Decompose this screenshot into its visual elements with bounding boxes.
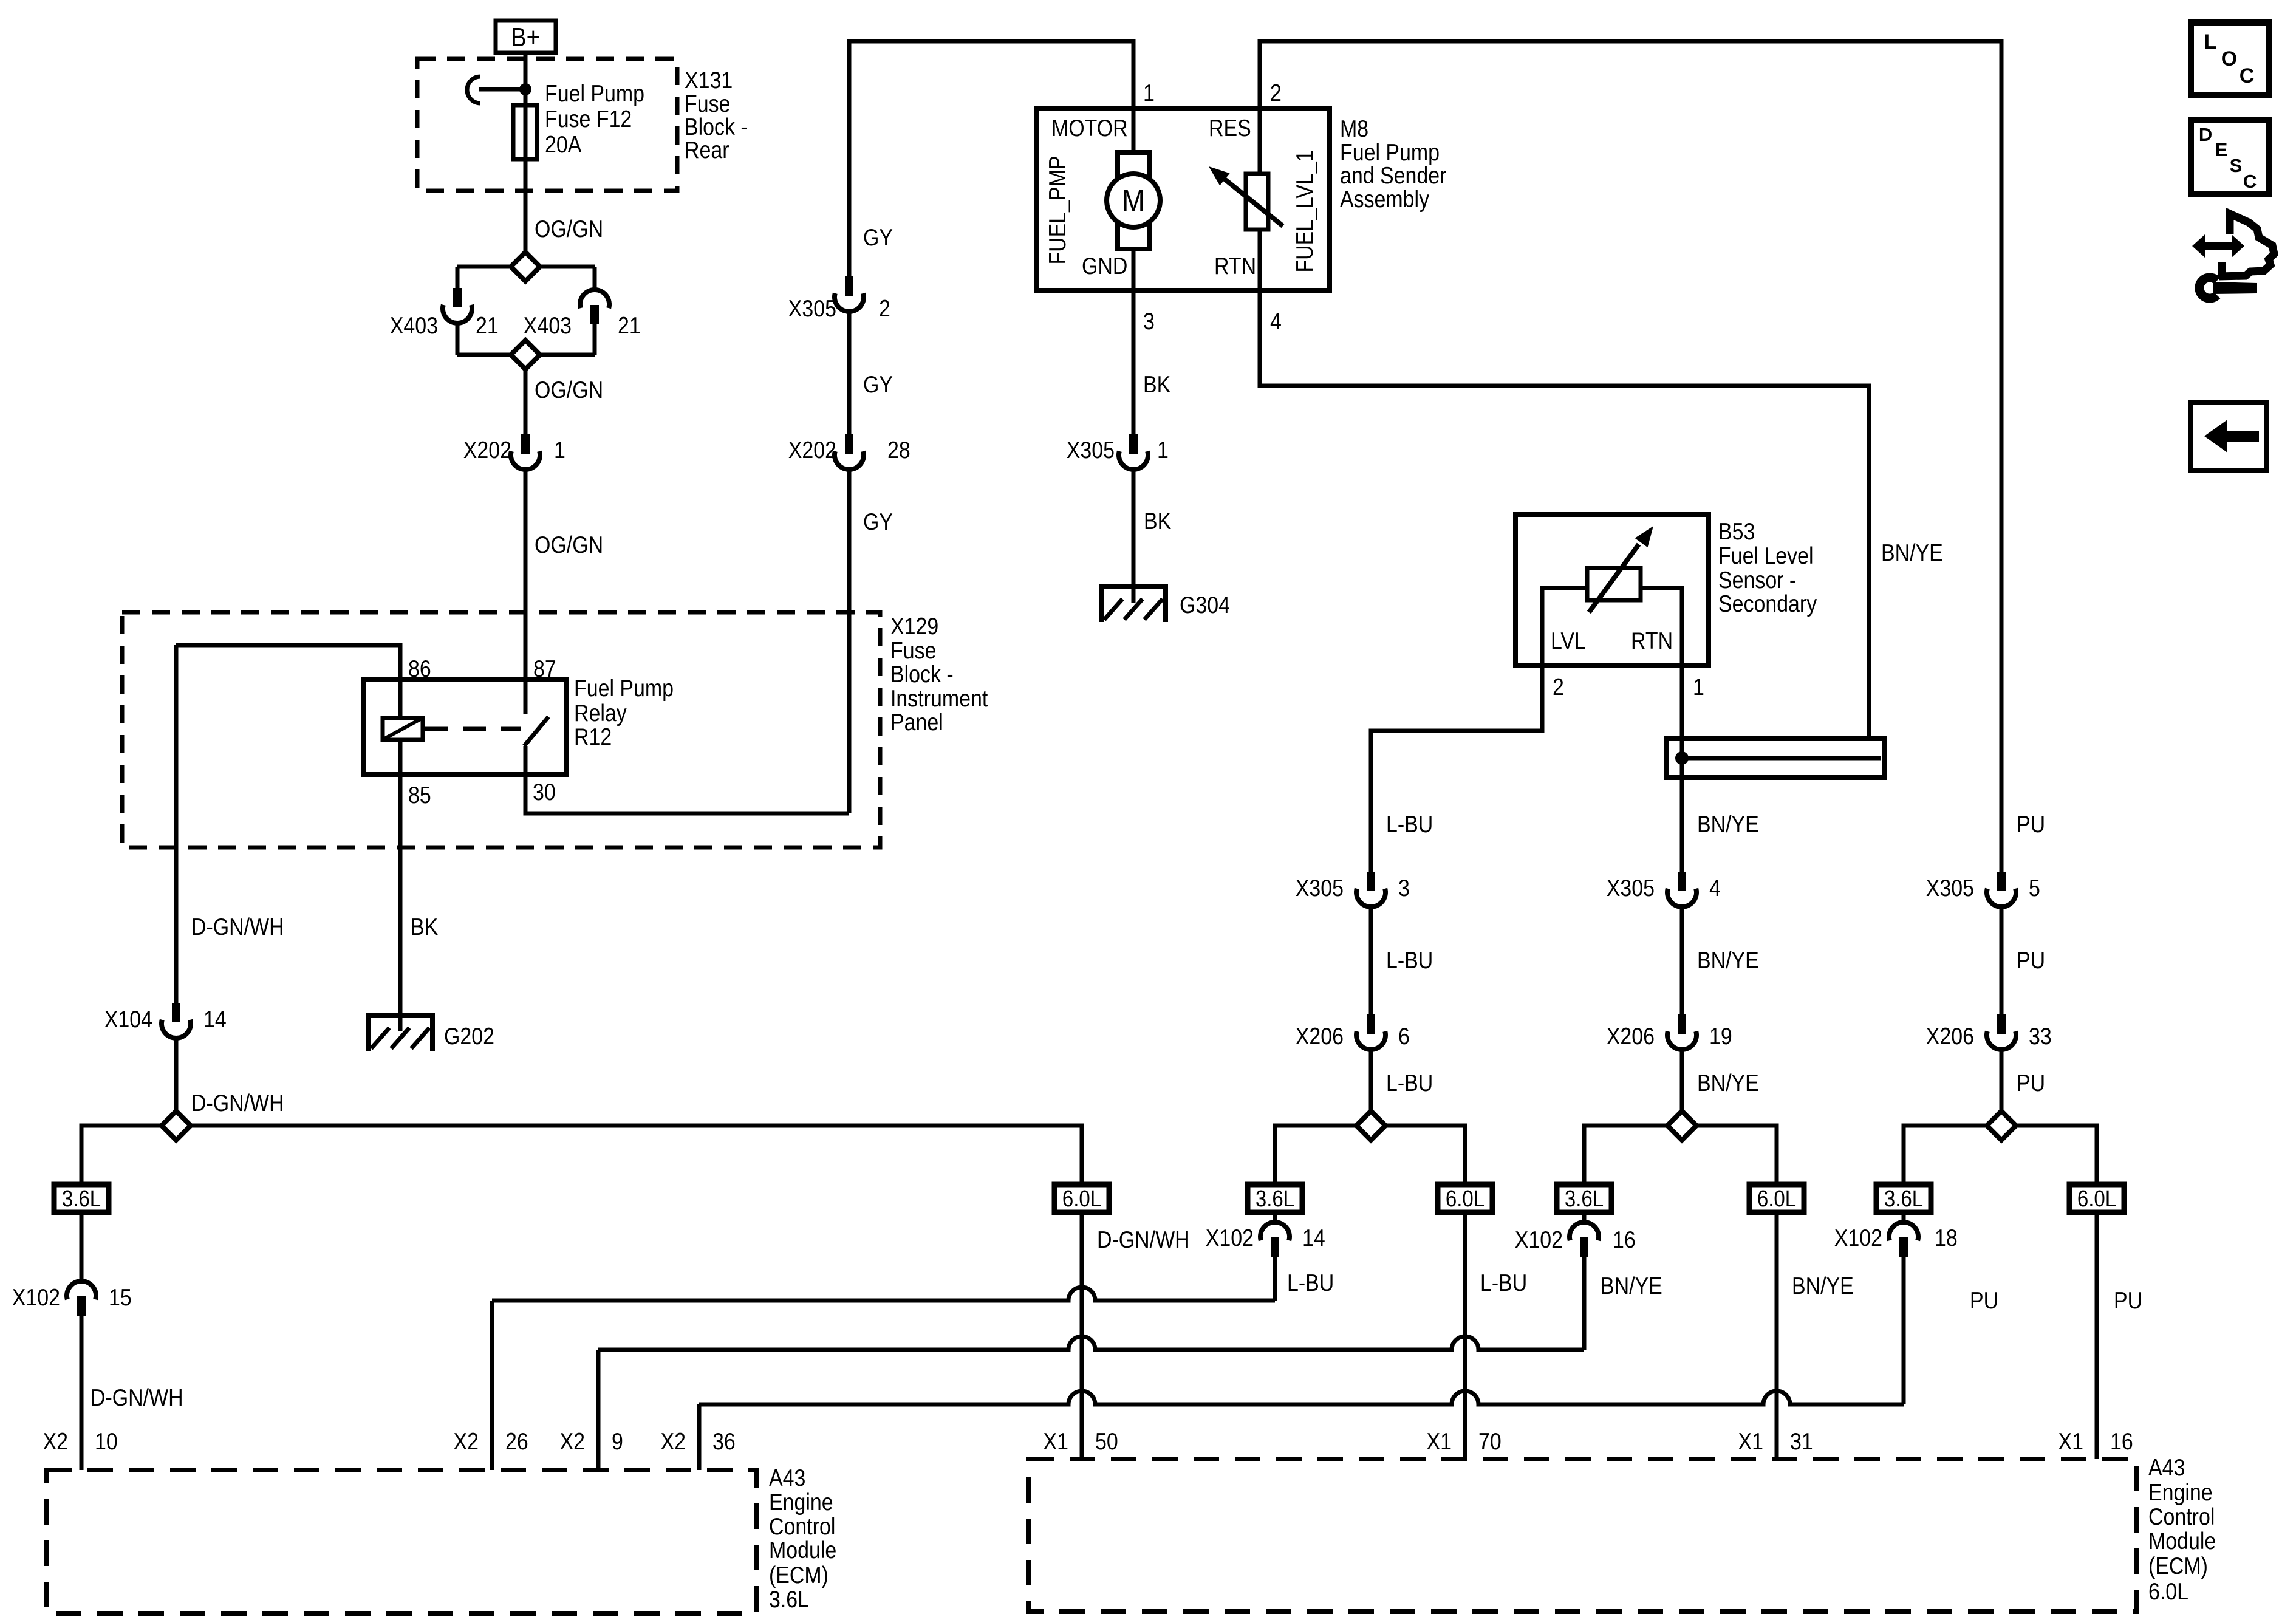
connector X206 terminal 19 — [1678, 1014, 1686, 1034]
junction dot at B+ feed — [519, 83, 531, 95]
svg-text:PU: PU — [2114, 1287, 2142, 1314]
svg-text:(ECM): (ECM) — [769, 1562, 829, 1588]
option box 6.0L at x2412 — [1438, 1185, 1492, 1212]
svg-text:PU: PU — [2017, 1070, 2045, 1096]
svg-text:GY: GY — [863, 371, 893, 398]
svg-text:2: 2 — [1270, 80, 1282, 106]
relay R12 box — [363, 679, 567, 774]
relay switch stub 30 — [524, 746, 528, 774]
svg-text:3: 3 — [1398, 875, 1410, 901]
svg-text:M: M — [1122, 183, 1145, 219]
svg-text:21: 21 — [476, 312, 499, 339]
svg-text:S: S — [2230, 155, 2243, 176]
wire splice fork lower — [457, 353, 595, 357]
wire pin3 to X305-1 — [1132, 290, 1136, 434]
svg-text:PU: PU — [2017, 811, 2045, 838]
svg-text:X206: X206 — [1607, 1023, 1655, 1050]
svg-text:X305: X305 — [1296, 875, 1344, 901]
option box 6.0L at x2925 — [1749, 1185, 1804, 1212]
option box 3.6L at x2099 — [1248, 1185, 1302, 1212]
svg-text:BN/YE: BN/YE — [1601, 1273, 1662, 1299]
ECM 3.6L dashed box — [46, 1470, 756, 1613]
svg-text:26: 26 — [505, 1428, 528, 1455]
fuse block X131 dashed outline — [417, 59, 677, 191]
svg-text:X202: X202 — [463, 437, 511, 463]
relay coil — [383, 718, 423, 740]
icon LOC box — [2191, 22, 2269, 95]
wire splice to X202 — [524, 369, 528, 434]
variable resistor arrow — [1221, 176, 1283, 226]
svg-text:and Sender: and Sender — [1340, 162, 1446, 189]
wire hook to feed — [479, 87, 525, 92]
svg-text:BN/YE: BN/YE — [1697, 811, 1759, 838]
svg-text:31: 31 — [1790, 1428, 1813, 1455]
icon harness foot — [2218, 262, 2226, 276]
connector X102 terminal 14 — [1260, 1222, 1290, 1240]
svg-text:PU: PU — [1970, 1287, 1998, 1314]
wire X305-3 to X206-6 — [1369, 907, 1373, 1014]
svg-text:14: 14 — [203, 1006, 227, 1033]
wire option bus PU — [1904, 1126, 2097, 1185]
connector X305 terminal 2 — [845, 276, 853, 296]
svg-text:1: 1 — [1143, 80, 1155, 106]
svg-text:X1: X1 — [1427, 1428, 1452, 1455]
connector X104 terminal 14 — [172, 1003, 180, 1022]
wire B53 RTN down — [1680, 665, 1684, 872]
connector X206 terminal 33 — [1997, 1014, 2006, 1034]
wire X305-4 to X206-19 — [1680, 907, 1684, 1014]
wire bus B to X2-9 — [598, 1336, 1584, 1350]
svg-text:R12: R12 — [574, 723, 612, 750]
connector X305 terminal 1 — [1129, 434, 1138, 454]
svg-text:3.6L: 3.6L — [1256, 1186, 1294, 1212]
svg-text:6.0L: 6.0L — [2148, 1578, 2188, 1605]
connector X202 terminal 1 — [521, 434, 530, 454]
wire X305-1 to G304 — [1132, 470, 1136, 589]
wire 6.0L BN/YE to ECM2 — [1775, 1212, 1779, 1459]
svg-text:6.0L: 6.0L — [2077, 1186, 2116, 1212]
svg-text:L-BU: L-BU — [1480, 1270, 1527, 1296]
fuse puller hook — [467, 77, 480, 103]
svg-text:OG/GN: OG/GN — [535, 532, 603, 558]
svg-text:Relay: Relay — [574, 700, 627, 726]
icon harness outline — [2219, 214, 2274, 276]
svg-text:A43: A43 — [2148, 1454, 2185, 1481]
svg-text:BN/YE: BN/YE — [1881, 539, 1943, 566]
svg-text:18: 18 — [1935, 1225, 1958, 1251]
wire X102-15 to ECM1 — [80, 1316, 84, 1470]
wire bus A to X2-26 — [492, 1287, 1275, 1301]
svg-text:BK: BK — [411, 914, 438, 940]
svg-text:Instrument: Instrument — [890, 685, 988, 712]
svg-text:L-BU: L-BU — [1287, 1270, 1334, 1296]
svg-text:X102: X102 — [1206, 1225, 1254, 1251]
svg-text:86: 86 — [408, 655, 431, 682]
svg-text:RES: RES — [1209, 115, 1251, 142]
wire option bus BN/YE — [1584, 1126, 1777, 1185]
power terminal B+ — [496, 21, 556, 53]
wire 6.0L D-GN/WH to ECM2 — [1080, 1212, 1084, 1459]
svg-text:3.6L: 3.6L — [1884, 1186, 1923, 1212]
wire sender branch — [1258, 108, 1262, 290]
icon DESC box — [2191, 120, 2269, 194]
wire X102-16 down — [1582, 1257, 1587, 1350]
svg-text:Module: Module — [769, 1537, 836, 1564]
option box 6.0L at x3452 — [2069, 1185, 2124, 1212]
wire X104-14 to splice — [174, 1038, 179, 1126]
svg-text:X129: X129 — [890, 613, 938, 640]
svg-text:3.6L: 3.6L — [1565, 1186, 1604, 1212]
motor M frame — [1118, 152, 1150, 249]
wire X2-9 drop — [596, 1350, 601, 1470]
svg-text:1: 1 — [1693, 674, 1704, 700]
svg-text:X305: X305 — [1067, 437, 1115, 463]
svg-text:MOTOR: MOTOR — [1051, 115, 1128, 142]
svg-text:9: 9 — [612, 1428, 623, 1455]
wire through fuse — [524, 105, 528, 159]
wire relay 30 to GY riser — [525, 774, 849, 813]
svg-text:19: 19 — [1709, 1023, 1732, 1050]
svg-text:O: O — [2221, 47, 2237, 70]
svg-text:X2: X2 — [661, 1428, 686, 1455]
connector X102 terminal 16 — [1570, 1222, 1599, 1240]
svg-text:36: 36 — [712, 1428, 736, 1455]
svg-text:RTN: RTN — [1631, 627, 1673, 654]
icon back-arrow box — [2191, 402, 2266, 470]
svg-text:GND: GND — [1082, 253, 1127, 279]
option box 3.6L at x2608 — [1557, 1185, 1611, 1212]
option box 3.6L at x3134 — [1876, 1185, 1931, 1212]
svg-text:RTN: RTN — [1214, 253, 1256, 279]
svg-text:X102: X102 — [1834, 1225, 1882, 1251]
svg-text:X1: X1 — [1738, 1428, 1763, 1455]
svg-text:14: 14 — [1302, 1225, 1325, 1251]
svg-text:X403: X403 — [524, 312, 572, 339]
svg-text:C: C — [2243, 171, 2257, 192]
svg-text:16: 16 — [1613, 1226, 1636, 1253]
fuse block X129 dashed outline — [122, 612, 880, 847]
wire X206-19 to splice — [1680, 1050, 1684, 1126]
wire B+ to fuse F12 — [524, 53, 528, 105]
svg-text:L-BU: L-BU — [1386, 811, 1433, 838]
wire X102-18 down — [1902, 1257, 1906, 1404]
variable resistor FUEL_LVL_1 — [1246, 174, 1268, 230]
svg-text:OG/GN: OG/GN — [535, 216, 603, 242]
wire X206-33 to splice — [2000, 1050, 2004, 1126]
wire splice fork upper — [457, 265, 595, 269]
svg-text:X305: X305 — [788, 295, 836, 322]
svg-text:C: C — [2240, 64, 2255, 87]
splice pack box — [1666, 739, 1885, 778]
svg-text:4: 4 — [1709, 875, 1721, 901]
svg-text:1: 1 — [554, 437, 565, 463]
svg-text:D-GN/WH: D-GN/WH — [191, 914, 284, 940]
svg-text:6.0L: 6.0L — [1446, 1186, 1485, 1212]
svg-text:D-GN/WH: D-GN/WH — [1097, 1226, 1190, 1253]
svg-text:L: L — [2204, 30, 2217, 53]
wire B53 LVL to X305-3 riser — [1371, 665, 1542, 872]
svg-text:GY: GY — [863, 508, 893, 535]
svg-text:15: 15 — [109, 1284, 132, 1311]
option box 3.6L at x134 — [54, 1185, 109, 1212]
svg-text:Fuse F12: Fuse F12 — [545, 106, 632, 132]
wire option bus D-GN/WH — [81, 1126, 1082, 1185]
wire relay 86 feed — [176, 645, 400, 679]
relay switch stub 87 — [524, 679, 528, 714]
wire top bus left — [849, 41, 1133, 813]
svg-text:X102: X102 — [12, 1284, 60, 1311]
connector X206 terminal 6 — [1367, 1014, 1375, 1034]
svg-text:X2: X2 — [560, 1428, 585, 1455]
wire 3.6L L-BU to X102-14 — [1273, 1211, 1277, 1222]
svg-text:16: 16 — [2110, 1428, 2133, 1455]
svg-text:X305: X305 — [1926, 875, 1974, 901]
wire X403 right down — [593, 324, 597, 355]
splice pack bus — [1682, 756, 1881, 761]
svg-text:3: 3 — [1143, 308, 1155, 335]
svg-text:33: 33 — [2029, 1023, 2052, 1050]
wire 3.6L D-GN/WH to X102-15 — [80, 1212, 84, 1281]
svg-text:X102: X102 — [1515, 1226, 1563, 1253]
svg-text:5: 5 — [2029, 875, 2040, 901]
splice diamond upper — [511, 252, 540, 281]
connector X403 terminal 21 left — [453, 288, 462, 307]
svg-text:20A: 20A — [545, 131, 582, 158]
svg-text:6: 6 — [1398, 1023, 1410, 1050]
wire bus C to X2-36 — [699, 1391, 1904, 1404]
svg-text:X305: X305 — [1607, 875, 1655, 901]
ground G202 — [398, 1016, 403, 1031]
svg-text:2: 2 — [879, 295, 890, 322]
connector X202 terminal 28 — [845, 434, 853, 454]
svg-text:6.0L: 6.0L — [1062, 1186, 1101, 1212]
wire motor branch — [1132, 108, 1136, 290]
svg-text:X202: X202 — [788, 437, 836, 463]
relay switch blade — [524, 717, 548, 746]
svg-text:1: 1 — [1157, 437, 1169, 463]
svg-text:28: 28 — [887, 437, 911, 463]
splice pack dot — [1675, 751, 1689, 765]
connector X102 terminal 18 — [1889, 1222, 1918, 1240]
svg-text:10: 10 — [95, 1428, 118, 1455]
wire X206-6 to splice — [1369, 1050, 1373, 1126]
svg-text:X2: X2 — [454, 1428, 479, 1455]
splice diamond BN/YE — [1667, 1111, 1696, 1140]
svg-text:Engine: Engine — [769, 1489, 833, 1516]
svg-text:L-BU: L-BU — [1386, 947, 1433, 974]
svg-text:X1: X1 — [1044, 1428, 1068, 1455]
svg-text:50: 50 — [1095, 1428, 1118, 1455]
svg-text:B53: B53 — [1718, 518, 1755, 545]
svg-text:E: E — [2215, 139, 2228, 160]
icon double arrow — [2192, 234, 2244, 258]
svg-text:Module: Module — [2148, 1528, 2216, 1554]
wire left branch to X403 — [456, 267, 460, 288]
svg-text:30: 30 — [533, 779, 556, 805]
svg-text:Fuel Pump: Fuel Pump — [545, 80, 644, 107]
svg-text:87: 87 — [533, 655, 556, 682]
svg-text:M8: M8 — [1340, 115, 1368, 142]
M8 assembly box — [1036, 108, 1330, 290]
wire X305-5 to X206-33 — [2000, 907, 2004, 1014]
svg-text:X1: X1 — [2059, 1428, 2083, 1455]
svg-text:FUEL_LVL_1: FUEL_LVL_1 — [1291, 150, 1318, 272]
variable resistor B53 — [1587, 568, 1641, 600]
relay coil-switch dashed link — [425, 727, 521, 731]
svg-text:4: 4 — [1270, 308, 1282, 335]
wire X202-1 to relay 87 — [524, 470, 528, 679]
svg-text:FUEL_PMP: FUEL_PMP — [1044, 156, 1071, 264]
connector X102 terminal 15 — [67, 1281, 96, 1299]
wire 6.0L PU to ECM2 — [2095, 1212, 2099, 1459]
svg-text:X206: X206 — [1296, 1023, 1344, 1050]
svg-text:Control: Control — [769, 1513, 835, 1540]
icon wrench handle — [2213, 282, 2257, 294]
svg-text:6.0L: 6.0L — [1757, 1186, 1796, 1212]
variable resistor arrow B53 — [1589, 544, 1639, 612]
svg-text:X131: X131 — [685, 67, 733, 94]
wire coil top stub — [398, 679, 403, 718]
connector X305 terminal 5 — [1997, 872, 2006, 891]
svg-text:Assembly: Assembly — [1340, 186, 1430, 213]
svg-text:X2: X2 — [43, 1428, 68, 1455]
splice diamond lower — [511, 340, 540, 369]
svg-text:D: D — [2199, 124, 2212, 145]
wire X2-36 drop — [697, 1404, 702, 1470]
icon back-arrow — [2204, 420, 2259, 453]
svg-text:Panel: Panel — [890, 709, 943, 736]
svg-text:Rear: Rear — [685, 137, 729, 163]
svg-text:BN/YE: BN/YE — [1697, 947, 1759, 974]
svg-text:3.6L: 3.6L — [62, 1186, 101, 1212]
svg-text:Fuse: Fuse — [890, 637, 936, 664]
wire pin2 top feed — [1260, 41, 2001, 872]
svg-text:GY: GY — [863, 224, 893, 251]
svg-text:Control: Control — [2148, 1503, 2215, 1530]
svg-text:A43: A43 — [769, 1465, 805, 1491]
wire fuse to splice — [524, 159, 528, 267]
svg-text:70: 70 — [1478, 1428, 1502, 1455]
svg-text:LVL: LVL — [1551, 627, 1586, 654]
wire X129 to X104-14 — [174, 645, 179, 1003]
wire option bus L-BU — [1275, 1126, 1465, 1185]
wire right branch to X403 — [593, 267, 597, 290]
svg-text:PU: PU — [2017, 947, 2045, 974]
splice diamond PU — [1987, 1111, 2016, 1140]
wire 3.6L BN/YE to X102-16 — [1582, 1211, 1587, 1222]
connector X403 terminal 21 right — [580, 290, 609, 308]
svg-text:BK: BK — [1143, 371, 1170, 398]
svg-text:Secondary: Secondary — [1718, 590, 1817, 617]
svg-text:BN/YE: BN/YE — [1697, 1070, 1759, 1096]
svg-text:Engine: Engine — [2148, 1479, 2213, 1506]
wire 3.6L PU to X102-18 — [1902, 1211, 1906, 1222]
wire pin4 return — [1260, 290, 1869, 739]
svg-text:BK: BK — [1144, 508, 1171, 535]
option box 6.0L at x1781 — [1054, 1185, 1109, 1212]
B53 sensor box — [1515, 514, 1709, 665]
connector X305 terminal 3 — [1367, 872, 1375, 891]
svg-text:X104: X104 — [104, 1006, 152, 1033]
svg-text:X403: X403 — [390, 312, 438, 339]
B53 inner frame — [1542, 588, 1682, 665]
connector X305 terminal 4 — [1678, 872, 1686, 891]
fuse F12 20A element — [513, 105, 537, 159]
svg-text:21: 21 — [618, 312, 641, 339]
ECM 6.0L dashed box — [1028, 1459, 2137, 1612]
svg-text:3.6L: 3.6L — [769, 1586, 809, 1613]
svg-text:L-BU: L-BU — [1386, 1070, 1433, 1096]
svg-text:D-GN/WH: D-GN/WH — [191, 1090, 284, 1116]
wire X403 left down — [456, 323, 460, 355]
svg-text:X206: X206 — [1926, 1023, 1974, 1050]
svg-text:BN/YE: BN/YE — [1792, 1273, 1854, 1299]
svg-text:2: 2 — [1553, 674, 1564, 700]
wire 6.0L L-BU to ECM2 — [1463, 1211, 1467, 1459]
icon wrench jaw — [2199, 278, 2217, 298]
svg-text:Sensor -: Sensor - — [1718, 567, 1796, 593]
svg-text:(ECM): (ECM) — [2148, 1553, 2208, 1579]
ground G304 — [1132, 587, 1136, 603]
svg-text:D-GN/WH: D-GN/WH — [91, 1384, 183, 1411]
motor M circle — [1107, 174, 1160, 227]
svg-text:85: 85 — [408, 782, 431, 808]
svg-text:B+: B+ — [511, 22, 540, 52]
svg-text:G304: G304 — [1180, 592, 1230, 618]
svg-text:G202: G202 — [444, 1023, 494, 1050]
splice diamond L-BU — [1356, 1111, 1385, 1140]
svg-text:Fuel Level: Fuel Level — [1718, 542, 1814, 569]
wire X102-14 down — [1273, 1257, 1277, 1301]
svg-text:Block -: Block - — [890, 661, 954, 688]
wire X2-26 drop — [490, 1301, 494, 1470]
splice diamond D-GN/WH — [162, 1111, 191, 1140]
wire relay 85 to ground — [398, 740, 403, 774]
svg-text:OG/GN: OG/GN — [535, 377, 603, 403]
svg-text:Fuel Pump: Fuel Pump — [574, 675, 674, 702]
